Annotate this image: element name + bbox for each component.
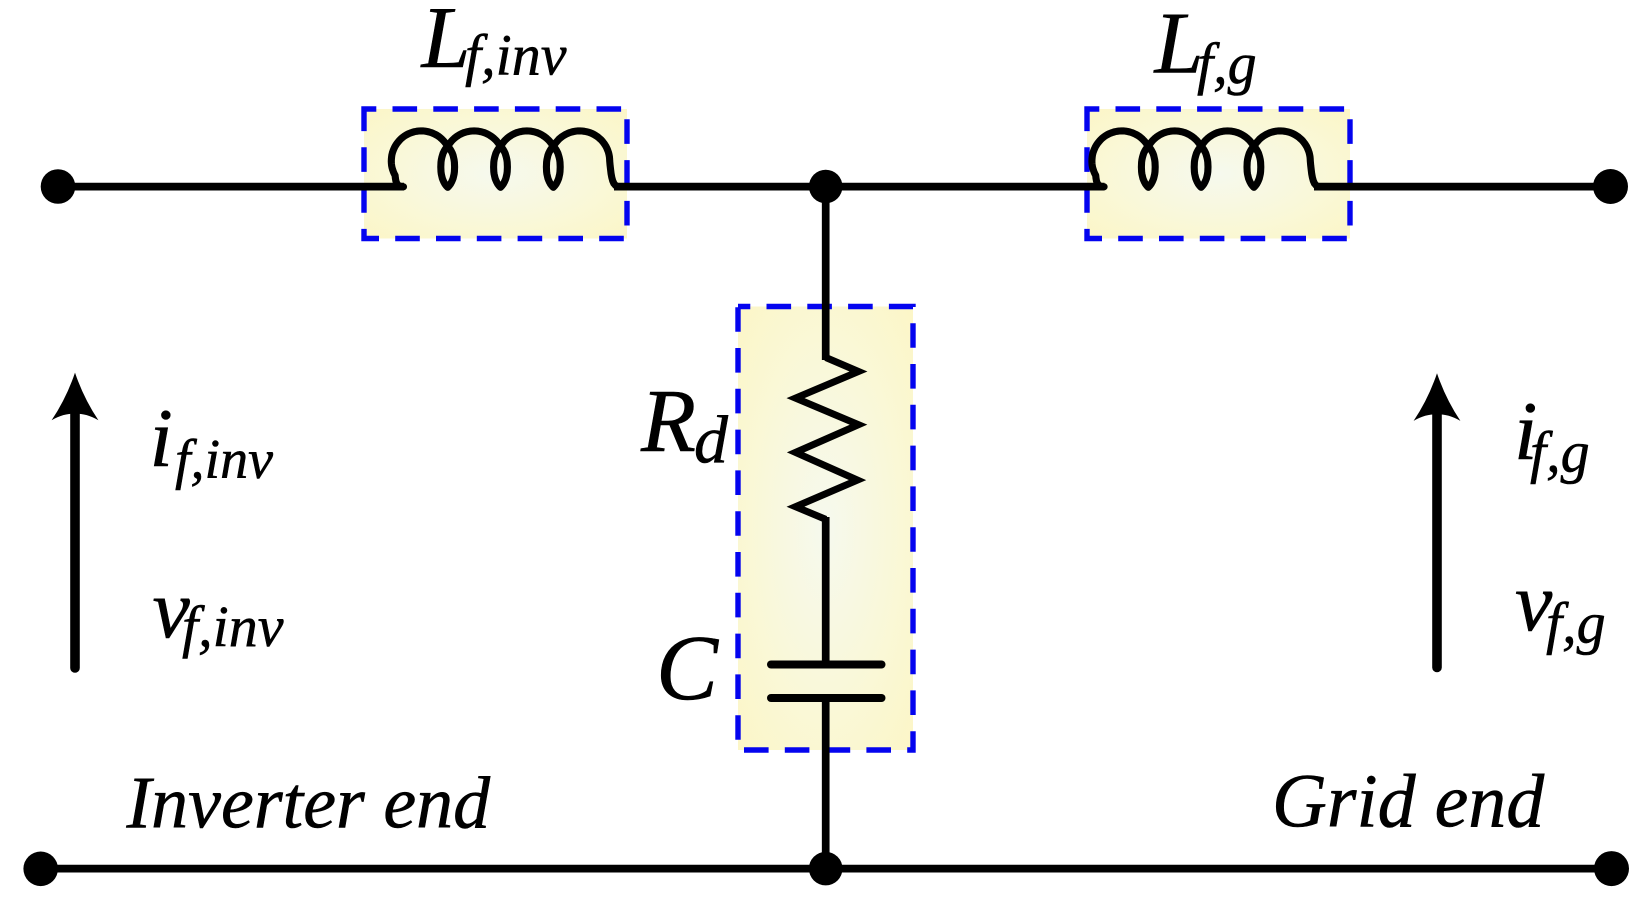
- svg-text:Inverter end: Inverter end: [126, 762, 492, 844]
- svg-text:R: R: [640, 372, 696, 471]
- node dot top right: [1593, 169, 1628, 204]
- component box L_f,inv: [364, 109, 627, 239]
- node dot top junction: [809, 170, 843, 204]
- arrow i_f,g shaft: [1432, 414, 1442, 668]
- arrow i_f,inv shaft: [70, 414, 80, 668]
- wire bottom rail: [41, 865, 1612, 873]
- svg-text:L: L: [1153, 0, 1204, 93]
- arrow i_f,g head: [1414, 373, 1461, 421]
- svg-text:f,inv: f,inv: [465, 23, 567, 88]
- arrow i_f,inv head: [52, 373, 99, 421]
- wire shunt upper lead: [822, 187, 830, 360]
- wire capacitor lower lead: [822, 698, 830, 869]
- wire top left segment: [58, 183, 404, 191]
- svg-text:f,g: f,g: [1197, 31, 1257, 96]
- node dot top left: [41, 169, 76, 204]
- svg-text:f,g: f,g: [1530, 420, 1590, 485]
- node dot bottom left: [23, 852, 58, 887]
- inductor L_f,g coil: [1092, 131, 1318, 187]
- component box L_f,g: [1087, 109, 1350, 239]
- wire top right segment: [1314, 183, 1610, 191]
- node dot bottom right: [1594, 851, 1629, 886]
- resistor Rd zigzag: [796, 358, 859, 520]
- svg-text:f,inv: f,inv: [182, 594, 284, 659]
- svg-text:d: d: [694, 401, 729, 477]
- svg-text:i: i: [150, 392, 173, 485]
- capacitor C top plate: [771, 661, 882, 669]
- component box R_d C: [738, 307, 913, 751]
- capacitor C bottom plate: [771, 694, 882, 702]
- svg-text:L: L: [420, 0, 471, 87]
- node dot bottom junction: [809, 852, 843, 886]
- wire resistor-capacitor lead: [822, 517, 830, 664]
- inductor L_f,inv coil: [391, 131, 617, 187]
- svg-text:f,g: f,g: [1546, 591, 1606, 656]
- wire top middle segment: [614, 183, 1105, 191]
- svg-text:f,inv: f,inv: [175, 429, 273, 491]
- svg-text:Grid end: Grid end: [1272, 760, 1545, 844]
- svg-text:C: C: [656, 617, 719, 720]
